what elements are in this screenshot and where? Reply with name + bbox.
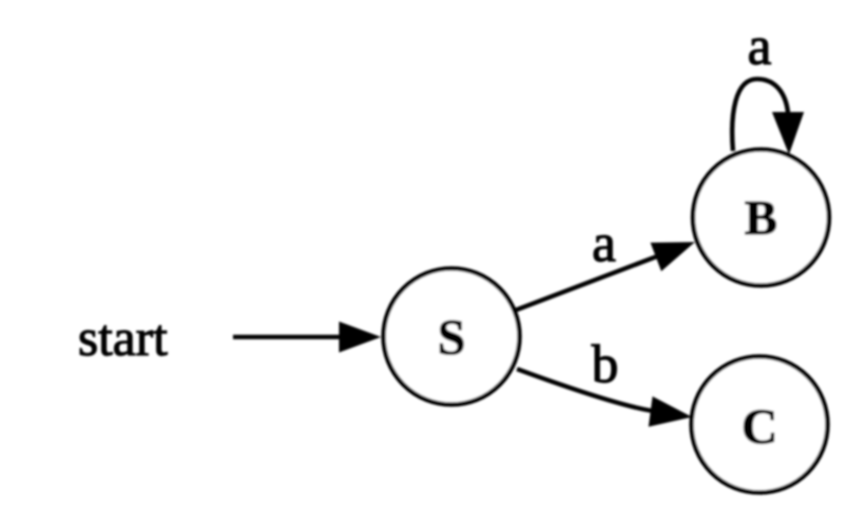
node B	[693, 150, 829, 286]
svg-text:b: b	[592, 334, 619, 394]
svg-text:S: S	[438, 309, 466, 365]
start arrowhead	[339, 322, 381, 353]
self loop on B wire	[732, 79, 788, 151]
edge S to C arrowhead	[649, 396, 693, 426]
edge S to B wire	[516, 256, 658, 310]
node S	[384, 269, 520, 405]
edge S to B arrowhead	[650, 242, 695, 271]
svg-text:B: B	[745, 190, 778, 245]
self loop arrowhead	[772, 112, 804, 155]
svg-text:a: a	[592, 213, 616, 273]
svg-text:a: a	[748, 16, 772, 76]
node C	[692, 357, 828, 493]
edge S to C wire	[517, 369, 653, 411]
svg-text:start: start	[78, 310, 168, 367]
start arrow wire	[233, 335, 343, 340]
svg-text:C: C	[741, 398, 777, 454]
